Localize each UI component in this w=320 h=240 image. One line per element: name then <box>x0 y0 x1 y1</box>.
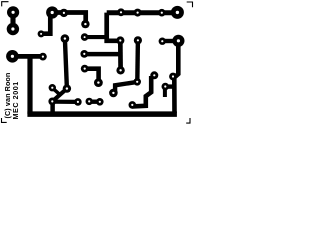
pad P4 <box>46 6 58 18</box>
corner mark top-right <box>187 2 193 7</box>
pad G1 <box>86 98 93 105</box>
pad D1 <box>134 36 142 44</box>
wire E2 to PE <box>162 39 178 43</box>
pad M1 <box>63 84 71 92</box>
pad K2 <box>133 78 141 86</box>
pad V1 <box>116 36 124 44</box>
wire J2 down to rail <box>50 102 55 112</box>
wire diagonal M1-J2 <box>52 89 67 102</box>
pad G2 <box>96 98 104 106</box>
pad N1 <box>49 84 56 91</box>
wire L2 tail down <box>163 87 167 97</box>
corner mark bottom-right <box>186 118 190 123</box>
pad A3a <box>117 8 125 16</box>
pad A3b <box>134 9 142 17</box>
wire top-right net vertical with jog to V1 <box>107 13 121 41</box>
wire PE down right side to ground rail <box>174 41 178 113</box>
pad P1 <box>7 6 19 18</box>
wire K1 elbow to K2 <box>115 82 137 93</box>
wire ground vertical from P3 trace <box>27 57 32 115</box>
pad E2 <box>159 38 166 45</box>
svg-text:MEC 2001: MEC 2001 <box>11 81 20 119</box>
wire Kx chain down to Q1 <box>132 76 151 106</box>
pad PF <box>171 6 184 19</box>
wire C2a stub and elbow to O1 <box>85 69 99 83</box>
pad K1 <box>109 89 118 98</box>
pad Q1 <box>129 101 137 109</box>
pad M0 <box>61 34 70 43</box>
pad PE <box>172 35 184 47</box>
pad J3 <box>74 98 82 106</box>
pad A4a <box>158 9 166 17</box>
wire P4 elbow down to W1 <box>41 13 50 34</box>
pad Bb <box>80 50 88 58</box>
pad J2 <box>48 98 56 106</box>
pad L1 on right vertical <box>169 73 177 81</box>
pad W1 <box>38 30 45 37</box>
wire ground rail bottom <box>27 111 177 117</box>
wire P3 horizontal to T1 <box>12 54 43 59</box>
wire M0 down to M1 <box>65 39 67 89</box>
wire L2 stub <box>165 84 174 88</box>
wire P1-P2 <box>10 12 15 29</box>
pad V2 <box>116 66 124 74</box>
wire Ba stub to vertical <box>85 35 107 39</box>
pad Kx <box>150 71 158 79</box>
wire V1 down to V2 <box>118 41 123 71</box>
pad L2 <box>162 83 170 91</box>
wire J2 to J3 <box>52 100 78 104</box>
pad P2 <box>7 23 19 35</box>
wire Bb line to vertical <box>84 52 120 57</box>
wire G1-G2 <box>89 99 100 103</box>
wire D1 down to K2 <box>135 40 140 82</box>
wire N1 connector <box>53 88 61 95</box>
corner mark top-left <box>2 2 9 7</box>
pad P3 <box>6 50 19 63</box>
wire P4 to elbow pad E1 <box>52 13 85 25</box>
pad P5 <box>60 9 68 17</box>
pad Ba <box>81 33 89 41</box>
pad C2a <box>81 65 89 73</box>
pad T1 embedded at end of P3 trace <box>39 53 47 61</box>
pad O1 <box>94 78 103 87</box>
corner mark bottom-left <box>2 118 7 122</box>
wire top-right net horizontal <box>107 10 178 15</box>
pad E1 <box>81 20 89 28</box>
